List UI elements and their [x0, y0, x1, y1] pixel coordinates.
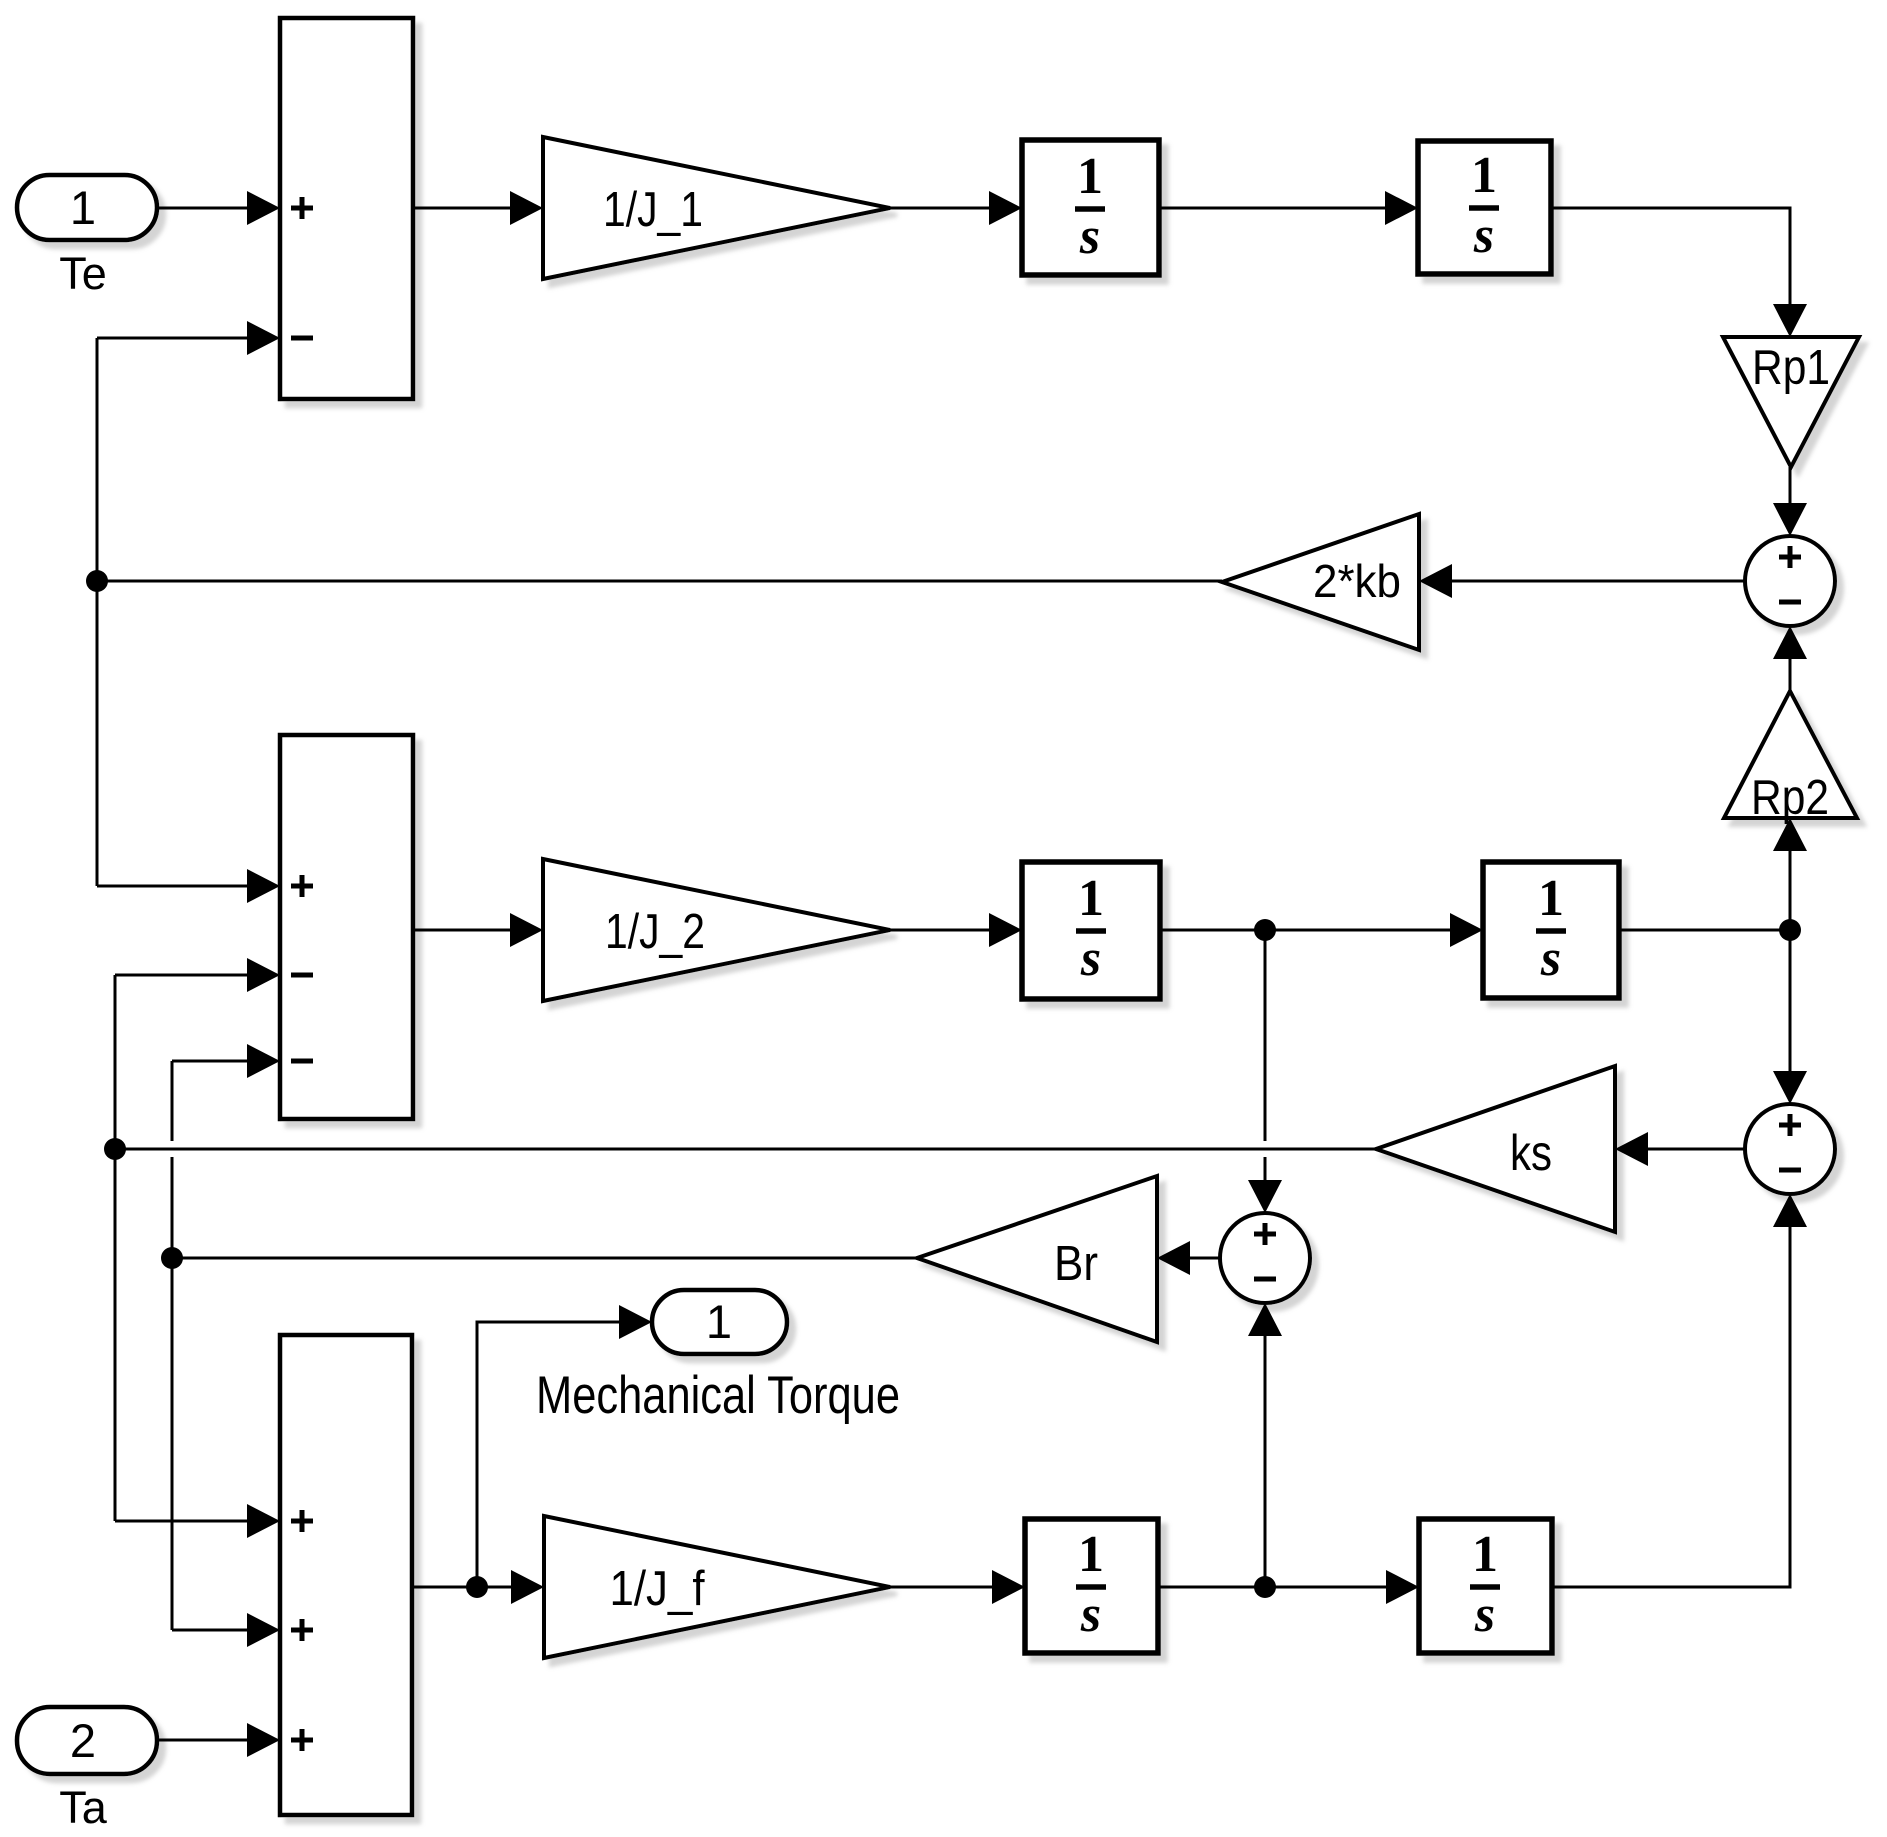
wire: 1/J_f to I5 — [890, 1570, 1025, 1604]
wire: C2 left to ks — [1615, 1132, 1745, 1166]
wire: I2 out right and down to Rp1 — [1551, 208, 1807, 337]
wire: x=97 vertical rail — [96, 338, 99, 886]
wire: x=172 vertical rail with crossing gap — [171, 1061, 174, 1141]
svg-text:1: 1 — [1078, 870, 1104, 927]
gain 1/J_f — [544, 1516, 890, 1658]
wire: I1 to I2 — [1159, 191, 1418, 225]
sum block S1 — [280, 18, 413, 399]
svg-text:s: s — [1080, 930, 1101, 987]
wire: S1 out to 1/J_1 — [413, 191, 543, 225]
wire: rail to S2 minus 1 — [115, 958, 280, 992]
wire: junction down to C3 top (gap at ks crossing) — [1248, 930, 1282, 1213]
gain Br — [917, 1176, 1157, 1342]
input port 2 (Ta) — [17, 1707, 157, 1774]
wire: rail down to C2 top — [1773, 930, 1807, 1104]
wire: I6 out right and up to C2 bottom — [1552, 1194, 1807, 1587]
wire: rail to S3 plus 1 — [115, 1504, 280, 1538]
svg-text:s: s — [1474, 1586, 1495, 1643]
integrator I4 — [1483, 862, 1619, 998]
svg-text:1/J_2: 1/J_2 — [605, 905, 705, 959]
svg-text:Rp1: Rp1 — [1752, 341, 1830, 395]
wire: S3 out to 1/J_f — [412, 1570, 544, 1604]
integrator I6 — [1419, 1519, 1552, 1653]
node: junction on x=172 rail — [161, 1247, 183, 1269]
wire: rail up into Rp2 base — [1773, 818, 1807, 930]
svg-text:1: 1 — [1538, 870, 1564, 927]
svg-text:2*kb: 2*kb — [1313, 555, 1401, 607]
sum block S2 — [280, 735, 413, 1119]
wire: 1/J_2 to I3 — [890, 913, 1022, 947]
svg-text:Rp2: Rp2 — [1751, 771, 1829, 825]
svg-text:1: 1 — [1077, 148, 1103, 205]
wire: 1/J_1 to I1 — [890, 191, 1022, 225]
svg-text:1/J_f: 1/J_f — [610, 1562, 705, 1616]
wire: Rp2 tip up to C1 bottom — [1773, 626, 1807, 691]
gain Rp1 (down-pointing) — [1723, 337, 1859, 467]
svg-text:2: 2 — [70, 1714, 96, 1767]
gain 1/J_2 — [543, 859, 890, 1001]
wire: rail to S1 minus — [97, 321, 280, 355]
gain ks — [1376, 1066, 1615, 1232]
svg-text:s: s — [1473, 207, 1494, 264]
svg-text:1: 1 — [1078, 1526, 1104, 1583]
svg-text:1: 1 — [70, 181, 96, 234]
wire: I5 to I6 — [1158, 1570, 1419, 1604]
svg-text:Te: Te — [59, 248, 107, 299]
svg-text:s: s — [1540, 930, 1561, 987]
node: junction on x=97 rail — [86, 570, 108, 592]
wire: rail to S2 plus — [97, 869, 280, 903]
wire: port2 to S3 plus 3 — [157, 1723, 280, 1757]
integrator I2 — [1418, 141, 1551, 274]
sum block S3 — [280, 1335, 412, 1815]
sum circle C1 — [1745, 536, 1835, 626]
wire: I4 out to x=1790 rail — [1619, 929, 1790, 932]
svg-text:1: 1 — [1472, 1526, 1498, 1583]
wire: I3 to I4 — [1160, 913, 1483, 947]
svg-text:Br: Br — [1054, 1237, 1098, 1291]
integrator I5 — [1025, 1519, 1158, 1653]
wire: junction up and right to output port — [477, 1305, 652, 1587]
node: junction on x=1790 rail — [1779, 919, 1801, 941]
svg-text:Ta: Ta — [59, 1782, 108, 1833]
integrator I3 — [1022, 862, 1160, 999]
wire: Br out left to x=172 rail — [172, 1257, 917, 1260]
wire: ks out left to x=115 rail — [115, 1148, 1376, 1151]
gain 1/J_1 — [543, 137, 890, 279]
node: junction after S3 — [466, 1576, 488, 1598]
output port 1 (Mechanical Torque) — [652, 1290, 787, 1354]
input port 1 (Te) — [17, 175, 157, 240]
wire: rail to S3 plus 2 — [172, 1613, 280, 1647]
node: junction on x=115 rail — [104, 1138, 126, 1160]
integrator I1 — [1022, 140, 1159, 275]
wire: Rp1 tip down to C1 top — [1773, 467, 1807, 536]
svg-text:s: s — [1080, 1586, 1101, 1643]
wire: x=115 vertical rail — [114, 975, 117, 1521]
svg-text:Mechanical Torque: Mechanical Torque — [536, 1366, 900, 1425]
svg-text:1: 1 — [706, 1295, 732, 1348]
gain Rp2 (up-pointing) — [1724, 691, 1857, 825]
wire: port1 to S1 plus — [157, 191, 280, 225]
svg-text:s: s — [1079, 208, 1100, 265]
sum circle C2 — [1745, 1104, 1835, 1194]
wire: C1 left to 2*kb — [1419, 564, 1745, 598]
svg-text:ks: ks — [1510, 1125, 1552, 1181]
wire: 2*kb out left to x=97 rail — [97, 580, 1222, 583]
svg-text:1: 1 — [1471, 147, 1497, 204]
wire: junction up to C3 bottom — [1248, 1303, 1282, 1587]
node: junction after I3 — [1254, 919, 1276, 941]
node: junction after I5 — [1254, 1576, 1276, 1598]
gain 2*kb — [1222, 514, 1419, 650]
svg-text:1/J_1: 1/J_1 — [603, 183, 703, 237]
sum circle C3 — [1220, 1213, 1310, 1303]
wire: S2 out to 1/J_2 — [413, 913, 543, 947]
wire: C3 left to Br — [1157, 1241, 1220, 1275]
wire: rail to S2 minus 2 — [172, 1044, 280, 1078]
